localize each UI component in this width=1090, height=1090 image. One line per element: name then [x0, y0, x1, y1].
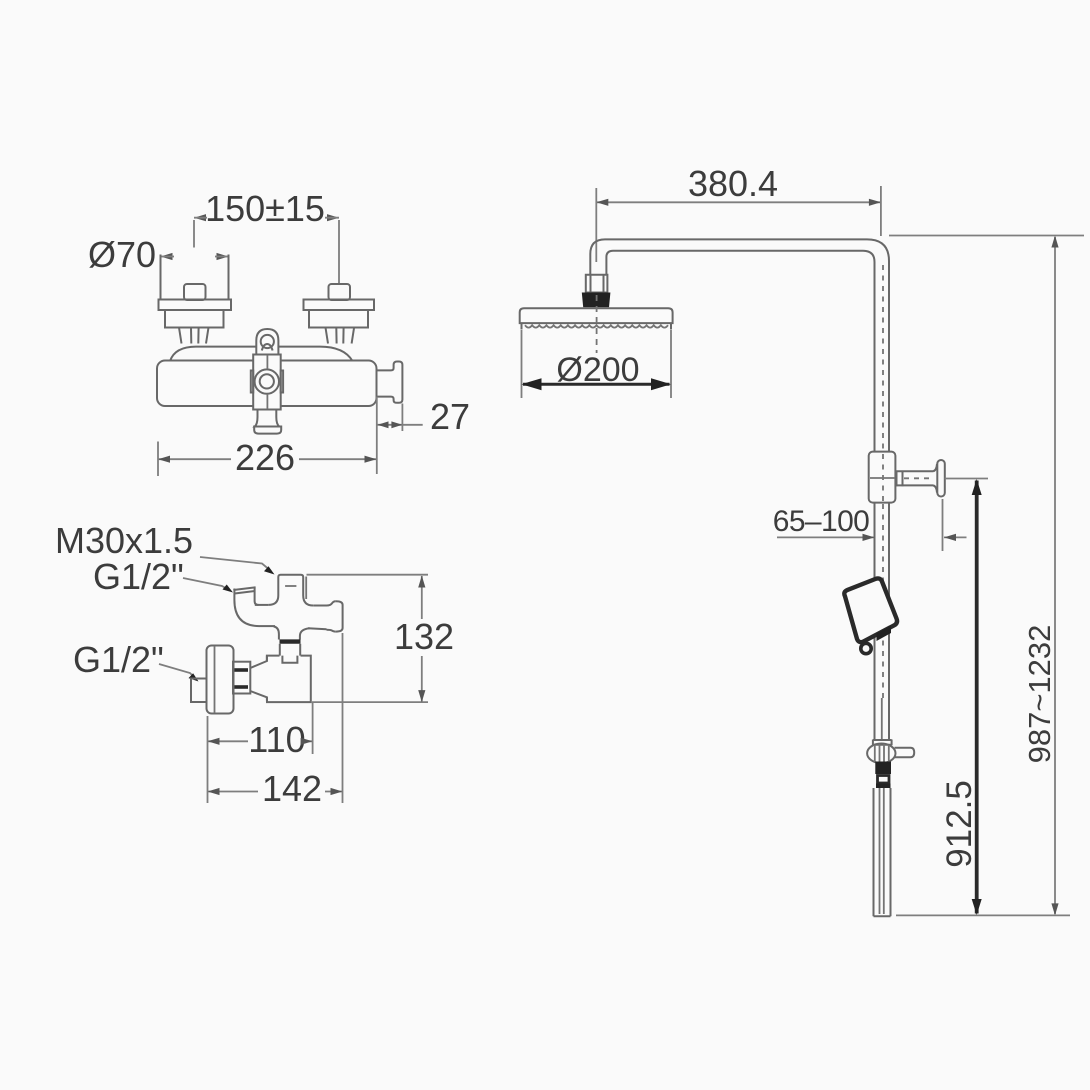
floor reference line	[896, 914, 1070, 916]
dimension 226 right extension	[376, 397, 378, 474]
valve main body	[157, 361, 377, 407]
dimension 110 right extension	[312, 703, 314, 755]
dimension 27 line	[377, 424, 423, 426]
diverter bell	[255, 410, 279, 427]
dimension 226 left extension	[157, 442, 159, 477]
svg-text:226: 226	[235, 437, 295, 478]
pipe below slider	[875, 503, 890, 740]
right handle flange	[304, 300, 375, 311]
slider block center dashes	[882, 454, 884, 501]
bottom nut body	[280, 644, 300, 656]
slider block	[869, 452, 896, 503]
label G1/2 upper leader	[183, 578, 229, 590]
shower head side edges	[522, 323, 672, 329]
label G1/2 upper arrow	[223, 585, 234, 593]
shower arm outer	[590, 239, 889, 451]
M30 top port	[278, 575, 303, 596]
diverter head arch	[262, 344, 273, 351]
inlet elbow outer wall	[234, 589, 259, 627]
right handle cap	[329, 284, 351, 300]
dimension 150±15 stubs	[194, 217, 339, 219]
left handle flange	[159, 300, 232, 311]
dimension 987-1232 bottom arrow	[1051, 903, 1058, 915]
dimension 150±15 left extension line	[193, 220, 195, 248]
bracket wall extension line	[942, 499, 944, 551]
right handle body	[309, 310, 368, 328]
dimension 65-100 left line	[777, 536, 874, 538]
inlet elbow opening edge	[233, 587, 255, 593]
dimension 142 left arrow	[208, 788, 220, 795]
svg-text:M30x1.5: M30x1.5	[55, 520, 193, 561]
dimension Ø200 right arrow	[651, 378, 671, 390]
bracket wall cone	[933, 464, 937, 493]
diverter ring inner	[260, 374, 274, 388]
inlet elbow inner wall	[255, 588, 259, 605]
dimension 110 left arrow	[208, 738, 220, 745]
bracket wall plate	[937, 460, 945, 497]
bell neck concave	[327, 601, 336, 631]
ball joint dark block	[582, 293, 611, 308]
dimension 150±15 right extension line	[338, 220, 340, 283]
dimension 912.5 top extension	[945, 478, 989, 480]
M30 port relief line	[305, 577, 307, 600]
shower head nozzle row	[525, 325, 668, 327]
dimension 912.5 top arrow	[972, 479, 982, 495]
pipe center dashes mid	[882, 504, 884, 698]
cross bottom-right fillet	[300, 628, 310, 639]
hand shower head	[844, 578, 897, 642]
label M30x1.5 arrow	[264, 566, 275, 574]
bell end disc	[336, 601, 343, 631]
slider block cross line	[870, 477, 895, 479]
hex nut	[233, 662, 250, 694]
dimension 142 right arrow	[331, 788, 343, 795]
hand shower hose connector	[861, 643, 871, 653]
wall flange inner line	[214, 646, 216, 713]
dimension Ø200 line bold	[523, 383, 670, 386]
svg-text:G1/2": G1/2"	[93, 556, 184, 597]
right arm bottom edge	[308, 627, 327, 630]
diverter bottom cap	[254, 427, 281, 434]
svg-text:27: 27	[430, 396, 470, 437]
bottom nut lower collar	[282, 656, 297, 663]
dimension 132 bottom extension	[312, 701, 428, 703]
valve shoulder	[170, 347, 353, 361]
cross bottom-left fillet	[274, 626, 279, 639]
dimension 380.4 left arrow	[596, 199, 608, 206]
M30 port inner mark	[285, 585, 296, 587]
lower pipe inner lines	[880, 788, 884, 914]
right arm top edge	[313, 605, 326, 607]
left arm top edge	[255, 604, 268, 606]
dimension 380.4 line	[596, 201, 881, 203]
diverter ball stripes	[875, 744, 889, 763]
left arm bottom edge	[260, 625, 276, 627]
svg-text:Ø70: Ø70	[88, 234, 156, 275]
svg-text:987~1232: 987~1232	[1022, 625, 1057, 764]
dimension 65-100 right arrow line	[944, 536, 967, 538]
dimension 380.4 left extension	[595, 188, 597, 262]
left handle body	[165, 310, 224, 328]
dimension 110 line	[208, 740, 313, 742]
outlet neck	[377, 362, 403, 403]
dimension 912.5 bottom arrow	[972, 899, 982, 915]
dimension 380.4 right arrow	[869, 199, 881, 206]
cross top-right fillet	[303, 596, 313, 606]
dimension 150±15 right arrow	[327, 214, 339, 221]
diverter block left tab	[251, 371, 253, 393]
pipe center dashes upper	[882, 265, 884, 450]
shower arm inner	[606, 251, 874, 452]
dimension 142 right extension	[342, 633, 344, 803]
svg-text:912.5: 912.5	[940, 780, 979, 868]
dimension 132 line	[421, 576, 423, 702]
dimension 142 left extension	[207, 754, 209, 803]
dimension 912.5 line bold	[975, 481, 979, 914]
svg-text:65–100: 65–100	[773, 505, 870, 538]
hex nut band upper	[233, 668, 248, 672]
dimension 132 top extension	[307, 574, 429, 576]
hex nut band lower	[233, 685, 248, 689]
dimension 27 extension	[401, 404, 403, 432]
svg-text:150±15: 150±15	[205, 188, 325, 229]
right handle stem	[326, 328, 355, 344]
dimension 226 right arrow	[365, 456, 377, 463]
lower body block	[267, 656, 311, 703]
svg-text:G1/2": G1/2"	[73, 639, 164, 680]
dimension Ø200 right extension	[670, 330, 672, 398]
diverter ball	[867, 744, 895, 764]
label G1/2 lower leader	[159, 664, 195, 678]
svg-text:132: 132	[394, 616, 454, 657]
shower head plate	[520, 308, 673, 323]
diverter head outline	[256, 329, 278, 355]
dimension 132 bottom arrow	[418, 690, 425, 702]
diverter block	[253, 355, 281, 410]
dimension Ø70 right arrow	[217, 253, 229, 260]
svg-text:380.4: 380.4	[688, 163, 778, 204]
dimension 226 left arrow	[158, 456, 170, 463]
diverter lock dark upper	[875, 762, 891, 775]
cross top-left fillet	[268, 596, 278, 605]
hand shower holder band	[877, 626, 892, 642]
svg-text:142: 142	[262, 768, 322, 809]
arm connector nut	[586, 275, 608, 293]
dimension 987-1232 top arrow	[1051, 236, 1058, 248]
bracket arm	[895, 471, 933, 485]
lower pipe	[874, 788, 891, 916]
dimension 27 left arrow	[378, 421, 389, 428]
bracket arm center dashes	[904, 477, 934, 479]
dimension 110 right arrow	[301, 738, 313, 745]
dimension 27 right arrow	[391, 421, 402, 428]
dimension 226 line	[158, 458, 377, 460]
dimension 380.4 right extension	[880, 186, 882, 236]
dimension Ø200 left extension	[521, 330, 523, 398]
diverter collar	[873, 740, 892, 746]
diverter ring outer	[255, 369, 279, 393]
bracket arm collar	[897, 471, 903, 487]
wall cone	[250, 656, 267, 703]
dimension Ø70 left arrow	[161, 253, 173, 260]
diverter center line	[266, 355, 268, 409]
dimension 987-1232 line	[1054, 237, 1056, 914]
left handle cap	[184, 284, 206, 300]
dimension 987-1232 top extension	[889, 235, 1084, 237]
label M30x1.5 leader	[200, 557, 271, 571]
left handle stem	[179, 328, 209, 344]
wall flange outer	[207, 646, 234, 714]
dimension 142 line	[208, 791, 343, 793]
shower head center dashes	[596, 295, 598, 353]
wall pipe stub	[191, 679, 207, 703]
bottom nut dark band	[280, 639, 301, 643]
svg-text:110: 110	[248, 719, 305, 760]
diverter head inner circle	[261, 335, 274, 348]
diverter knob	[895, 748, 915, 757]
diverter lock middle	[878, 776, 890, 784]
label G1/2 lower arrow	[189, 673, 199, 681]
diverter white mask	[253, 329, 281, 410]
dimension Ø200 left arrow	[522, 378, 542, 390]
dimension 65-100 arrow right	[863, 534, 875, 541]
dimension 150±15 left arrow	[194, 214, 206, 221]
dimension 132 top arrow	[418, 576, 425, 588]
dimension 65-100 arrow left	[944, 534, 956, 541]
diverter lock dark lower	[876, 784, 891, 789]
diverter block right tab	[281, 371, 283, 393]
dimension 110 left extension	[207, 716, 209, 754]
left handle knob sides	[161, 255, 229, 300]
